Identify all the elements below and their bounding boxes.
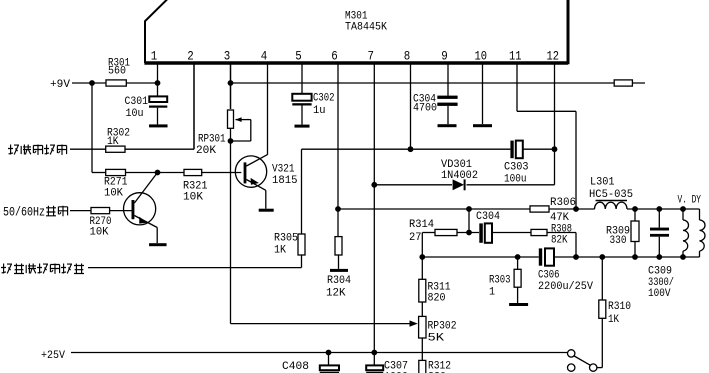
svg-text:100u: 100u: [504, 174, 527, 186]
svg-text:1K: 1K: [608, 314, 619, 326]
potentiometer RP301: [228, 110, 234, 128]
junction RP301 wiper: [228, 138, 234, 144]
junction R311 top: [419, 254, 425, 260]
transistor V321: [235, 156, 266, 187]
wire +25V rail: [71, 352, 568, 354]
wire pin 11 to L301 node: [517, 110, 576, 112]
resistor R310: [599, 300, 606, 318]
resistor R302: [106, 146, 125, 152]
svg-text:HC5-035: HC5-035: [589, 189, 633, 201]
svg-text:27: 27: [409, 232, 422, 244]
resistor R304: [335, 237, 342, 255]
junction pin 3 +9V: [228, 80, 234, 86]
svg-text:1K: 1K: [107, 136, 119, 148]
wire pin 2 drop: [193, 64, 195, 149]
svg-text:RP301: RP301: [198, 134, 226, 146]
capacitor C304 series: [479, 223, 483, 242]
wire R311 lead: [421, 257, 423, 279]
junction R310 top: [599, 254, 605, 260]
resistor R270: [91, 208, 110, 214]
wire R314 left corner: [422, 232, 435, 234]
junction pin 1 +9V: [155, 80, 161, 86]
svg-text:+25V: +25V: [41, 350, 65, 362]
wire output bottom line left part: [422, 256, 539, 258]
wire field drive pulse line to pin 2: [70, 148, 106, 150]
wire pin 3 column down: [230, 64, 232, 109]
resistor R314: [435, 229, 457, 235]
wire 50/60Hz line: [70, 210, 91, 212]
junction R303 top: [515, 254, 521, 260]
wire switch to R310: [597, 367, 602, 369]
svg-text:2200u/25V: 2200u/25V: [538, 281, 593, 293]
ground under pin 10: [473, 124, 492, 127]
svg-text:20K: 20K: [196, 145, 216, 157]
junction pin 12: [552, 146, 558, 152]
svg-text:2: 2: [187, 48, 194, 63]
svg-text:7: 7: [368, 48, 375, 63]
svg-text:5: 5: [295, 48, 302, 63]
ground under R303: [509, 303, 528, 306]
svg-text:11: 11: [509, 48, 522, 63]
svg-text:6: 6: [331, 48, 338, 63]
svg-text:C309: C309: [648, 266, 672, 278]
capacitor C408: [328, 353, 330, 366]
junction C304 branch bottom: [466, 230, 472, 236]
resistor R303: [514, 269, 521, 287]
junction L301 left node: [573, 206, 579, 212]
coil yoke left winding: [682, 209, 684, 220]
svg-text:1u: 1u: [313, 105, 326, 117]
wire pin 6 down to R304: [337, 209, 339, 237]
resistor R311: [419, 279, 426, 302]
switch pole on +25V: [568, 350, 575, 357]
wire R308 to down corner: [547, 232, 576, 234]
potentiometer RP302: [419, 316, 426, 338]
wire RP302 wiper arrow from pin 3: [231, 323, 412, 325]
wire C304 branch vertical: [468, 209, 470, 233]
svg-text:L301: L301: [590, 177, 615, 189]
svg-text:10K: 10K: [183, 192, 203, 204]
resistor R305: [298, 234, 305, 255]
wire pin 6 line to R306: [338, 208, 530, 210]
svg-text:8: 8: [404, 48, 411, 63]
svg-text:5K: 5K: [428, 333, 445, 345]
wire R309 leads: [634, 209, 636, 221]
junction C309 top: [656, 206, 662, 212]
svg-text:12: 12: [547, 48, 560, 63]
svg-text:12K: 12K: [326, 287, 346, 299]
coil yoke right winding: [699, 209, 701, 220]
capacitor C302: [292, 94, 311, 101]
wire R306 to L301: [549, 208, 595, 210]
wire R305 vertical: [301, 149, 303, 234]
switch blade: [574, 356, 590, 365]
wire R314 to C304: [457, 232, 479, 234]
transistor Q left 50/60Hz switch: [124, 193, 156, 225]
svg-text:1K: 1K: [274, 245, 286, 257]
capacitor C303: [510, 141, 513, 159]
wire +9V rail right from pin 3: [231, 82, 646, 84]
wire bottom line right part: [554, 256, 700, 258]
capacitor C309: [658, 209, 660, 228]
svg-text:100V: 100V: [648, 288, 671, 300]
wire R310 top lead: [601, 257, 603, 300]
svg-text:4700: 4700: [413, 103, 437, 115]
ground under C304: [438, 124, 457, 127]
resistor R308: [531, 229, 547, 235]
junction R309 bottom: [632, 254, 638, 260]
IC M301 TA8445K: [145, 0, 168, 63]
capacitor C307: [373, 353, 375, 366]
label output 场逆程脉冲输出: [1, 264, 12, 274]
svg-text:1815: 1815: [272, 175, 298, 187]
junction yoke top: [680, 206, 686, 212]
wire R271 line: [92, 172, 106, 174]
svg-text:50/60Hz: 50/60Hz: [3, 206, 45, 220]
svg-text:4: 4: [261, 48, 268, 63]
wire R303 vertical: [517, 257, 519, 269]
junction pin 7 diode: [371, 182, 377, 188]
svg-text:47K: 47K: [550, 212, 569, 224]
wire RP302 to R312: [421, 338, 423, 360]
svg-text:TA8445K: TA8445K: [345, 22, 387, 34]
capacitor C301: [157, 83, 159, 97]
svg-text:R306: R306: [550, 197, 576, 209]
svg-text:820: 820: [428, 293, 446, 305]
junction pin 8: [408, 146, 414, 152]
switch unused contact: [568, 364, 575, 371]
wire C303 to pin 12: [523, 148, 555, 150]
junction yoke bottom: [680, 254, 686, 260]
svg-text:C304: C304: [476, 211, 500, 223]
svg-text:10K: 10K: [90, 227, 109, 239]
svg-text:330: 330: [610, 235, 627, 247]
ground under C302: [295, 125, 310, 128]
ground under V321 emitter: [259, 209, 274, 212]
wire R305 top line to C303: [302, 148, 511, 150]
junction pin 6 node: [335, 206, 341, 212]
svg-text:+9V: +9V: [50, 79, 70, 91]
switch contact to R310: [590, 364, 597, 371]
svg-text:1: 1: [151, 48, 158, 63]
label input 场激励脉冲: [8, 145, 19, 155]
capacitor C306: [539, 248, 542, 265]
resistor unlabeled top right: [614, 80, 632, 86]
svg-text:1N4002: 1N4002: [441, 170, 478, 182]
svg-text:V. DY: V. DY: [678, 195, 702, 207]
wire diode anode to pin 7: [374, 184, 452, 186]
resistor R321: [184, 169, 202, 175]
svg-text:V321: V321: [272, 164, 295, 176]
wire field flyback pulse output line: [88, 267, 302, 269]
junction C307 pin 7: [371, 350, 377, 356]
svg-text:R314: R314: [409, 219, 434, 231]
wire pin 12 down to diode line: [554, 149, 556, 185]
resistor R309: [631, 221, 639, 242]
junction C306 right: [573, 254, 579, 260]
svg-text:C301: C301: [125, 96, 149, 108]
resistor R301: [106, 80, 126, 86]
inductor L301 HC5-035: [595, 202, 628, 209]
wire +9V branch down to R271 line: [91, 83, 93, 173]
wire L301 to yoke line: [627, 208, 700, 210]
svg-text:R310: R310: [608, 301, 631, 313]
junction C304 branch top: [466, 206, 472, 212]
svg-text:10: 10: [475, 48, 488, 63]
junction R309 top: [632, 206, 638, 212]
svg-text:C306: C306: [538, 270, 560, 282]
resistor R271: [106, 169, 126, 175]
svg-text:R305: R305: [274, 233, 298, 245]
svg-text:R311: R311: [428, 281, 451, 293]
svg-text:1: 1: [489, 287, 495, 299]
ground under R304: [330, 269, 348, 272]
svg-text:RP302: RP302: [428, 321, 457, 333]
ground under C301: [149, 124, 168, 127]
capacitor C304 4700: [437, 96, 457, 99]
junction C408: [326, 350, 332, 356]
resistor R312: [419, 360, 426, 373]
ground under left transistor emitter: [149, 243, 167, 246]
junction C309 bottom: [656, 254, 662, 260]
svg-text:560: 560: [108, 66, 126, 78]
svg-text:10u: 10u: [126, 108, 144, 120]
svg-text:R303: R303: [489, 274, 511, 286]
junction collector node: [155, 170, 161, 176]
wire +9V rail left: [72, 82, 158, 84]
resistor R306: [530, 206, 549, 212]
junction +9V to R271 branch: [89, 80, 95, 86]
svg-text:C303: C303: [504, 162, 529, 174]
wire R311 to RP302: [421, 302, 423, 316]
svg-text:82K: 82K: [551, 234, 568, 246]
svg-text:C302: C302: [313, 93, 335, 105]
svg-text:R304: R304: [327, 275, 351, 287]
svg-text:3: 3: [224, 48, 231, 63]
svg-text:9: 9: [441, 48, 448, 63]
svg-text:10K: 10K: [104, 188, 123, 200]
diode VD301 1N4002: [453, 179, 464, 190]
svg-text:C408: C408: [282, 361, 309, 373]
wire C304 to R308: [492, 232, 531, 234]
